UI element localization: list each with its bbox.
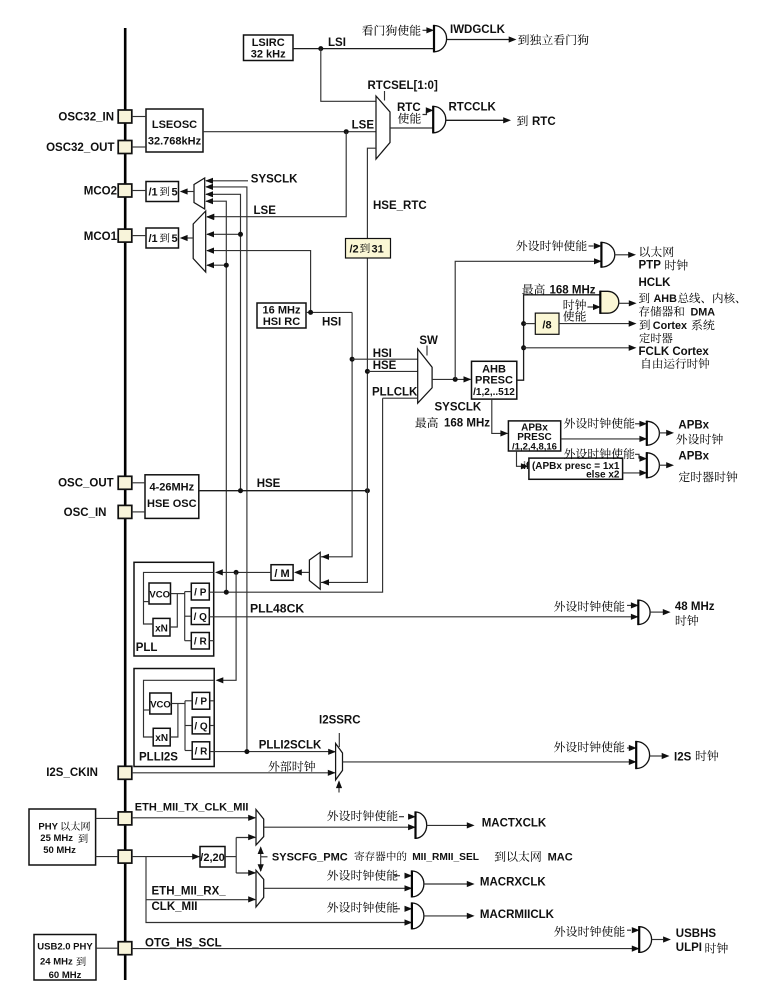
wire MACRMIICLK output (424, 915, 467, 917)
and-gate I2S clock (636, 742, 649, 769)
label 外设时钟使能 (APBx) (564, 418, 634, 429)
box AHB PRESC /1,2,..512 (472, 361, 517, 399)
box if APBx presc (529, 458, 623, 479)
wire RTCCLK output (446, 119, 504, 121)
box /2到31 prescaler (346, 239, 391, 259)
wire PLL input distribution (144, 572, 214, 624)
svg-text:HSE OSC: HSE OSC (147, 498, 197, 510)
svg-text:PLL: PLL (136, 642, 158, 654)
svg-text:32 kHz: 32 kHz (251, 49, 286, 61)
svg-text:VCO: VCO (149, 589, 170, 600)
arrow enable into MACTX gate (399, 816, 404, 818)
select line SW (426, 346, 428, 356)
svg-text:MACRMIICLK: MACRMIICLK (480, 909, 555, 921)
svg-text:LSE: LSE (254, 205, 277, 217)
svg-text:PLL48CK: PLL48CK (250, 602, 304, 616)
and-gate APBx timer clock (647, 453, 660, 478)
box PLL outer (134, 562, 214, 656)
junction LSE (344, 129, 349, 134)
wire AHB PRESC down to APBx PRESC (492, 399, 508, 433)
svg-text:/2,20: /2,20 (200, 852, 224, 864)
wire PLLI2SCLK from /R to I2S mux (210, 751, 335, 753)
svg-text:RTC: RTC (397, 102, 421, 114)
wire HCLK output (619, 302, 630, 304)
wire MCO1 pin to prescaler (132, 235, 146, 237)
wire PLLCLK into SW mux (383, 397, 418, 399)
svg-text:CLK_MII: CLK_MII (152, 901, 198, 913)
svg-text:PTP: PTP (639, 259, 662, 271)
wire /2,20 fork to TX and RX muxes (225, 856, 236, 858)
junction HSI at MCO tap (308, 310, 313, 315)
svg-text:OSC32_OUT: OSC32_OUT (46, 142, 114, 154)
pin ETH2 (118, 850, 132, 863)
box PLL xN (153, 618, 170, 636)
box LSIRC 32 kHz (244, 35, 294, 61)
box PLLI2S /Q (192, 717, 210, 734)
and-gate IWDG (434, 26, 447, 52)
wire SYSCLK stub to MCO2 mux (206, 180, 248, 182)
wire PLLI2S input distribution (144, 680, 215, 737)
pin I2S_CKIN (118, 766, 132, 779)
svg-text:HSI: HSI (322, 317, 341, 329)
label 自由运行时钟 (643, 358, 710, 369)
svg-text:HSI RC: HSI RC (263, 316, 300, 328)
label 到独立看门狗 (518, 34, 588, 45)
junction FCLK (521, 345, 526, 350)
pin USB (118, 942, 132, 955)
wire into PLL VCO (144, 601, 150, 603)
junction HSI at SW input (350, 357, 355, 362)
wire I2S mux output to I2S gate (343, 761, 636, 763)
svg-text:OSC32_IN: OSC32_IN (58, 112, 114, 124)
svg-text:/ R: / R (195, 746, 209, 757)
svg-text:SYSCFG_PMC: SYSCFG_PMC (272, 851, 348, 863)
and-gate HCLK (yellow) (600, 291, 619, 313)
svg-text:48 MHz: 48 MHz (675, 601, 715, 613)
wire HSE line (199, 490, 368, 492)
svg-text:ETH_MII_TX_CLK_MII: ETH_MII_TX_CLK_MII (135, 801, 249, 813)
and-gate Ethernet PTP (601, 242, 614, 267)
wire MCO1 mux output (187, 237, 194, 239)
svg-text:HSE: HSE (373, 360, 397, 372)
wire MCO2 mux output (187, 191, 195, 193)
and-gate RTC (433, 106, 446, 132)
wire PLL trunk to MCO2 mux (206, 201, 226, 592)
wire PLL tap to MCO1 mux (207, 264, 226, 266)
label 到 RTC (517, 115, 528, 126)
svg-text:16 MHz: 16 MHz (263, 305, 301, 317)
junction HSE at HSE_RTC vertical (365, 488, 370, 493)
pin OSC32_IN (118, 110, 132, 123)
svg-text:/8: /8 (542, 319, 551, 331)
label 外设时钟使能 (USBHS) (554, 926, 624, 937)
wire HSE_RTC vertical (RTC mux to HSE line to /M mux) (321, 148, 376, 582)
wire HSE tap to MCO1 mux (207, 233, 241, 235)
wire HSI tap to MCO1 mux (207, 251, 311, 313)
junction HCLK to /8 (521, 321, 526, 326)
arrow enable into MACRX gate (394, 875, 400, 877)
wire FCLK output (524, 347, 629, 349)
wire 外部时钟 from I2S_CKIN pin (132, 772, 335, 774)
label 外设时钟使能 (APBx timer) (564, 448, 634, 459)
wire PLLI2S trunk to MCO2 mux (206, 187, 247, 752)
svg-text:SW: SW (419, 335, 438, 347)
svg-text:168 MHz: 168 MHz (550, 284, 596, 296)
arrow enable into PTP gate (589, 245, 594, 247)
and-gate MACRXCLK (412, 871, 424, 897)
box PLL /Q (191, 608, 209, 625)
wire /M output branch to PLLI2S (222, 572, 236, 680)
mux MCO2 (194, 178, 205, 209)
svg-text:MCO2: MCO2 (84, 186, 117, 198)
wire PLLI2S /P stub (210, 700, 215, 702)
wire timer gate output (659, 464, 667, 466)
svg-text:HSI: HSI (373, 348, 392, 360)
box LSEOSC 32.768kHz (146, 109, 203, 152)
svg-text:DMA: DMA (691, 306, 716, 318)
wire LSE arrow into MCO1 mux (input 1) (206, 214, 214, 220)
box PLL /P (191, 583, 209, 600)
and-gate MACTXCLK (416, 812, 427, 838)
wire if box output to timer gate (623, 472, 647, 474)
svg-text:25 MHz: 25 MHz (40, 833, 73, 844)
wire PLL /R stub (209, 640, 213, 642)
wire USBHS output (652, 939, 663, 941)
svg-text:HSE: HSE (257, 478, 281, 490)
wire HSI output (306, 311, 352, 313)
wire /M mux output into /M box (301, 571, 309, 573)
svg-text:I2S_CKIN: I2S_CKIN (46, 767, 98, 779)
wire PLLCLK from PLL /P to SW mux (209, 398, 382, 592)
svg-text:FCLK Cortex: FCLK Cortex (639, 346, 710, 358)
arrow enable into I2S gate (627, 747, 631, 749)
wire SYSCLK up to Ethernet PTP gate (455, 261, 601, 379)
svg-text:xN: xN (155, 733, 168, 744)
svg-text:HCLK: HCLK (639, 277, 672, 289)
box PLLI2S VCO (150, 693, 172, 714)
wire PLLI2S VCO out and feedback (171, 703, 185, 705)
box MCO2 prescaler /1 到 5 (146, 182, 179, 202)
svg-text:LSIRC: LSIRC (252, 37, 285, 49)
mux RTC (LSI/LSE/HSE_RTC) (376, 96, 390, 159)
wire /8 output to Cortex timer (559, 323, 629, 325)
svg-text:OSC_OUT: OSC_OUT (58, 478, 114, 490)
wire into PLLI2S VCO (144, 709, 150, 711)
label 定时器 (639, 333, 672, 343)
pin ETH1 (118, 812, 132, 825)
junction PLLCLK at MCO trunk (224, 590, 229, 595)
label 外设时钟使能 (MACRMII) (327, 902, 397, 913)
wire 48MHz output (650, 611, 663, 613)
junction HSE trunk at MCO1 (238, 232, 243, 237)
box /2,20 (200, 847, 225, 868)
box MCO1 prescaler /1 到 5 (146, 228, 179, 248)
wire to /2,20 divider (146, 856, 199, 858)
svg-text:60 MHz: 60 MHz (49, 970, 82, 981)
arrow enable into MACRMII gate (394, 908, 400, 910)
box 4-26MHz HSE OSC (145, 475, 199, 519)
wire PHY to ETH1 pin (96, 817, 119, 819)
wire HSI down to SW mux and /M mux (321, 312, 352, 556)
chip boundary line (124, 28, 127, 980)
svg-text:USBHS: USBHS (676, 928, 717, 940)
box PLLI2S /P (192, 692, 210, 709)
svg-text:LSEOSC: LSEOSC (152, 119, 197, 131)
svg-text:50 MHz: 50 MHz (43, 845, 76, 856)
svg-text:PLLCLK: PLLCLK (372, 387, 418, 399)
arrow enable into HCLK gate (588, 306, 594, 308)
pin OSC32_OUT (118, 141, 132, 154)
label watchdog enable 看门狗使能 (362, 25, 420, 36)
svg-text:RTCSEL[1:0]: RTCSEL[1:0] (368, 80, 438, 92)
mux SW (HSI/HSE/PLLCLK) (418, 349, 432, 403)
pin MCO2 (118, 184, 132, 197)
arrow watchdog enable into IWDG gate (423, 29, 428, 31)
svg-text:MCO1: MCO1 (84, 231, 118, 243)
svg-text:MACTXCLK: MACTXCLK (482, 818, 547, 830)
svg-text:/1: /1 (149, 186, 158, 198)
wire AHB PRESC output up to HCLK (517, 295, 601, 380)
arrow enable into timer gate (635, 454, 639, 458)
svg-text:ULPI: ULPI (676, 942, 702, 954)
wire ETH_MII_RX_CLK_MII to RX mux (146, 899, 255, 901)
wire APBx PRESC output to APBx gate (561, 438, 647, 440)
svg-text:IWDGCLK: IWDGCLK (450, 24, 506, 36)
box PLL /R (191, 633, 209, 650)
svg-text:HSE_RTC: HSE_RTC (373, 200, 427, 212)
wire SYSCLK from SW mux to AHB PRESC (432, 378, 470, 380)
wire MCO2 pin to prescaler (132, 190, 146, 192)
svg-text:/ Q: / Q (194, 721, 208, 732)
junction HSE at MCO trunk (238, 488, 243, 493)
mux /M input (HSI/HSE) (309, 552, 320, 589)
and-gate 48MHz clock (638, 600, 650, 624)
wire HSE into SW mux (367, 370, 417, 372)
select arrow I2SSRC bottom (338, 782, 340, 793)
wire LSE from LSEOSC to RTC mux (203, 131, 376, 133)
wire PTP output (614, 254, 628, 256)
wire MACRXCLK output (424, 883, 467, 885)
wire LSI from LSIRC to IWDG gate (293, 48, 434, 50)
svg-text:PLLI2S: PLLI2S (139, 751, 178, 763)
wire OSC_OUT pin to HSE OSC (132, 482, 145, 484)
svg-text:/1: /1 (149, 233, 158, 245)
svg-text:168 MHz: 168 MHz (444, 418, 490, 430)
svg-text:ETH_MII_RX_: ETH_MII_RX_ (152, 886, 227, 898)
label 外设时钟使能 (MACTX) (327, 810, 397, 821)
box PHY 以太网 25-50 MHz (29, 809, 96, 865)
select line RTCSEL into RTC mux (384, 91, 386, 101)
mux MACRXCLK (256, 870, 264, 907)
wire PLLI2S /Q stub (210, 725, 215, 727)
mux MCO1 (193, 211, 206, 272)
junction LSI (318, 46, 323, 51)
wire /M output to PLL (222, 571, 271, 573)
wire PLL VCO out and feedback (171, 593, 185, 595)
box 16 MHz HSI RC (257, 303, 306, 328)
svg-text:LSI: LSI (328, 37, 346, 49)
svg-text:RTCCLK: RTCCLK (449, 102, 497, 114)
box /8 (yellow) (535, 313, 559, 334)
wire MACTXCLK output (427, 824, 467, 826)
label 以太网 PTP 时钟 (640, 246, 673, 257)
svg-text:APBx: APBx (678, 450, 709, 462)
box PLLI2S xN (153, 728, 170, 746)
svg-text:/1,2,..512: /1,2,..512 (473, 387, 515, 398)
svg-text:PRESC: PRESC (475, 375, 513, 387)
junction SYSCLK (453, 377, 458, 382)
wire ETH2 pin branches (132, 857, 412, 923)
box USB2.0 PHY 24-60 MHz (34, 935, 96, 981)
svg-text:/ R: / R (194, 637, 208, 648)
pin OSC_IN (118, 505, 132, 518)
wire USB PHY to pin (96, 947, 118, 949)
select line I2SSRC top (338, 733, 340, 747)
svg-text:xN: xN (155, 623, 168, 634)
svg-text:MII_RMII_SEL: MII_RMII_SEL (412, 852, 479, 863)
pin MCO1 (118, 229, 132, 242)
svg-text:AHB: AHB (654, 293, 678, 305)
svg-text:SYSCLK: SYSCLK (251, 173, 298, 185)
junction PLLI2SCLK at MCO trunk (244, 749, 249, 754)
label 到 AHB 总线、内核、 (639, 293, 649, 303)
mux MACTXCLK (256, 810, 264, 846)
box PLL VCO (149, 583, 171, 604)
junction HSE at SW input (365, 369, 370, 374)
wire LSE branch down to MCO1 mux (207, 132, 346, 217)
label 外设时钟使能 (PTP) (516, 240, 586, 251)
svg-text:MACRXCLK: MACRXCLK (480, 877, 546, 889)
svg-text:/ P: / P (195, 697, 208, 708)
wire OSC32_IN pin to LSEOSC (132, 116, 146, 118)
wire IWDGCLK output (447, 39, 509, 41)
svg-text:RTC: RTC (532, 116, 556, 128)
svg-text:4-26MHz: 4-26MHz (149, 482, 194, 494)
svg-text:PHY: PHY (38, 821, 58, 832)
label 存储器和 DMA (639, 306, 684, 317)
label 外设时钟使能 (48MHz) (554, 601, 624, 612)
wire /8 input (524, 323, 536, 325)
label 外部时钟 (268, 761, 315, 772)
wire APBx gate output (659, 432, 667, 434)
label 时钟使能 (HCLK) (564, 299, 586, 310)
svg-text:OTG_HS_SCL: OTG_HS_SCL (145, 938, 222, 950)
label 到 Cortex 系统 (639, 320, 649, 330)
wire APBx PRESC down to if box (517, 451, 529, 466)
svg-text:VCO: VCO (150, 699, 171, 710)
svg-text:5: 5 (172, 233, 178, 245)
arrow enable into 48MHz gate (627, 604, 631, 606)
arrow RTC enable into RTC gate (423, 110, 427, 114)
svg-text:LSE: LSE (352, 120, 375, 132)
wire ETH_MII_TX_CLK_MII to TX mux (132, 817, 255, 819)
svg-text:/2: /2 (350, 243, 359, 255)
and-gate MACRMIICLK (412, 903, 424, 929)
svg-text:31: 31 (372, 243, 384, 255)
wire OSC32_OUT pin to LSEOSC (132, 146, 146, 148)
box /M (271, 565, 293, 581)
svg-text:PLLI2SCLK: PLLI2SCLK (259, 739, 322, 751)
label 外设时钟使能 (I2S) (554, 741, 624, 752)
wire HSI into SW mux (352, 358, 418, 360)
svg-text:/ P: / P (194, 588, 207, 599)
junction PLL trunk at MCO1 (224, 263, 229, 268)
and-gate USBHS ULPI (639, 927, 651, 953)
wire PLL48CK from PLL /Q to 48MHz gate (209, 616, 637, 618)
svg-text:I2S: I2S (674, 751, 692, 763)
select MII_RMII_SEL arrows (260, 848, 262, 872)
label 外设时钟使能 (MACRX) (327, 870, 397, 881)
mux I2S (PLLI2SCLK / ext) (336, 744, 343, 780)
wire PLLI2S divider trunk (184, 701, 186, 751)
box PLLI2S /R (192, 742, 210, 759)
wire PLL divider trunk (184, 592, 186, 641)
svg-text:APBx: APBx (678, 420, 709, 432)
label 最高 168 MHz under SYSCLK (415, 417, 438, 428)
svg-text:/ Q: / Q (194, 612, 208, 623)
svg-text:5: 5 (172, 186, 178, 198)
wire HSE trunk to MCO2 mux (206, 194, 241, 490)
wire RTC mux output to RTC gate (390, 127, 433, 129)
svg-text:Cortex: Cortex (653, 320, 687, 332)
wire PHY to ETH2 pin (96, 856, 119, 858)
svg-text:24 MHz: 24 MHz (40, 956, 73, 967)
wire RX mux output to MACRX gate (264, 887, 412, 889)
arrow enable into APBx gate (635, 423, 640, 425)
pin OSC_OUT (118, 476, 132, 489)
wire I2S output (650, 755, 663, 757)
and-gate APBx peripheral clock (647, 421, 660, 445)
svg-text:USB2.0 PHY: USB2.0 PHY (37, 942, 93, 953)
wire LSI to RTC mux (321, 49, 376, 102)
label 最高 168 MHz (HCLK) (522, 284, 545, 295)
svg-text:32.768kHz: 32.768kHz (148, 136, 202, 148)
junction /M output (234, 570, 239, 575)
svg-text:else x2: else x2 (586, 470, 620, 481)
wire OSC_IN pin to HSE OSC (132, 511, 145, 513)
box APBx PRESC /1,2,4,8,16 (508, 421, 560, 451)
svg-text:MAC: MAC (548, 851, 573, 863)
svg-text:SYSCLK: SYSCLK (435, 402, 482, 414)
svg-text:/ M: / M (274, 568, 289, 580)
box PLLI2S outer (134, 669, 214, 767)
wire TX mux output to MACTX gate (264, 826, 415, 828)
arrow enable into USBHS gate (627, 929, 631, 931)
svg-text:I2SSRC: I2SSRC (319, 715, 361, 727)
wire OTG_HS_SCL to USBHS gate (132, 948, 639, 950)
svg-text:/1,2,4,8,16: /1,2,4,8,16 (512, 441, 557, 452)
svg-text:OSC_IN: OSC_IN (64, 507, 107, 519)
